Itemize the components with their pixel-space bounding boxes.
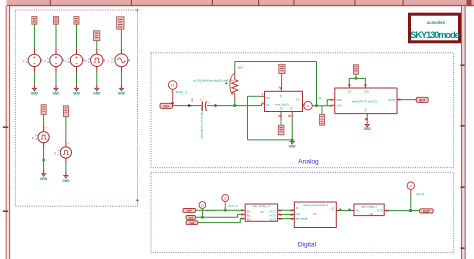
V6 wire top (43, 114, 45, 125)
V2 pin mark right (62, 60, 63, 61)
svg-text:+: + (45, 126, 47, 130)
V2 wire top (55, 24, 57, 48)
V1 pin mark right (41, 60, 42, 61)
probe v1 arrowhead (171, 102, 175, 105)
V7 pin stub top (65, 141, 67, 147)
svg-text:GND: GND (118, 92, 126, 96)
svg-text:Digital: Digital (298, 241, 317, 248)
svg-text:v5: v5 (224, 196, 227, 200)
frame top tick x=403 (403, 0, 404, 6)
selection dashed box (left group) (15, 10, 137, 206)
adc pin cross marks (241, 209, 243, 219)
V3 source circle (70, 54, 82, 66)
svg-text:OUT1: OUT1 (377, 210, 384, 213)
V2 wire bottom (55, 72, 57, 84)
net label box below wire (320, 114, 325, 125)
V3 wire bottom (76, 72, 78, 84)
adc-verilog wire 1 stubs (278, 209, 295, 211)
svg-text:GND: GND (40, 177, 48, 181)
dac out cross mark (387, 210, 389, 212)
V7 wire bottom (65, 164, 67, 172)
adc-verilog cross marks (280, 210, 293, 220)
OUT label box analog (416, 97, 428, 102)
svg-text:xC3Q,3u,w=1u,sky13Q: xC3Q,3u,w=1u,sky13Q (200, 108, 204, 140)
V6 wire junction dot (42, 159, 44, 161)
digital dashed box (151, 172, 454, 252)
svg-text:VDP: VDP (337, 98, 343, 102)
U2 bottom wire (366, 120, 368, 125)
svg-text:IN2: IN2 (247, 214, 252, 217)
in+ red stub (262, 95, 265, 97)
V1 source circle (28, 54, 40, 66)
svg-text:OUT: OUT (419, 99, 426, 103)
V5 label box (117, 17, 124, 29)
opamp U1 top supply wire (281, 74, 283, 89)
V5 wire bottom (120, 72, 122, 84)
U2 vdp stub (332, 99, 335, 101)
OUT label box digital (420, 209, 434, 214)
V1 wire top (33, 24, 35, 48)
svg-text:-: - (123, 70, 124, 74)
V4 pin stub top (96, 49, 98, 55)
probe d1 junction (201, 216, 203, 218)
svg-text:net_L+1: net_L+1 (206, 208, 217, 212)
svg-text:v2: v2 (318, 96, 322, 100)
verilog-dac wire stubs (336, 210, 354, 212)
opamp U1 gnd junction (291, 139, 294, 142)
title block (410, 14, 460, 42)
V4 pin mark right (103, 60, 104, 61)
svg-text:+: + (123, 48, 125, 52)
probe d2 (222, 195, 229, 202)
V3 polarity glyphs (76, 56, 78, 63)
wire B (196, 214, 243, 217)
verilog U1 box (294, 202, 336, 228)
adc-verilog wire 2 stubs (278, 213, 295, 215)
svg-text:V: V (44, 59, 46, 63)
V4 source circle (91, 54, 103, 66)
main wire cap to opamp (207, 105, 262, 107)
junction feedback/wire (315, 104, 318, 107)
svg-text:-: - (36, 70, 37, 74)
svg-text:OU: OU (296, 98, 300, 102)
V3 label box (74, 17, 79, 25)
svg-text:-: - (78, 70, 79, 74)
V1 polarity glyphs (33, 56, 35, 63)
frame top tick x=131 (131, 0, 132, 6)
adc-verilog wire 1 (278, 209, 295, 211)
wire U2 to OUT (400, 99, 416, 101)
V2 pin stub top (55, 49, 57, 55)
U2 vss stub (332, 104, 335, 106)
svg-text:OUT1: OUT1 (270, 210, 277, 213)
svg-text:VSS: VSS (337, 104, 343, 108)
probe vo (304, 101, 313, 110)
probe d3 riser (410, 189, 412, 196)
top feedback rail (235, 61, 317, 63)
svg-text:vin+: vin+ (163, 104, 170, 108)
frame top tick x=258 (258, 0, 259, 6)
svg-text:VOUT: VOUT (388, 98, 396, 102)
V5 pin mark right (128, 60, 129, 61)
V4 ground (93, 88, 101, 95)
svg-text:IN3: IN3 (247, 218, 252, 221)
V7 label box (63, 106, 68, 117)
selection anchor mark (136, 9, 139, 202)
svg-text:+: + (98, 48, 100, 52)
U2 ground (364, 125, 372, 131)
adc-verilog wire 2 (278, 213, 295, 215)
V5 pin stub top (120, 48, 122, 54)
frame top tick x=355 (354, 0, 355, 6)
svg-text:#na_9pLFU: #na_9pLFU (275, 102, 289, 106)
svg-text:V: V (85, 59, 87, 63)
U2 out stub (397, 99, 400, 101)
svg-text:adc_bridge_3: adc_bridge_3 (253, 204, 270, 208)
svg-text:Analog: Analog (298, 158, 319, 165)
frame left border (6, 6, 11, 259)
svg-text:+: + (36, 48, 38, 52)
svg-text:out(,)1: out(,)1 (416, 192, 425, 196)
V6 pin stub top (43, 126, 45, 132)
svg-text:V: V (65, 59, 67, 63)
svg-text:v1: v1 (171, 84, 175, 88)
svg-text:P: P (54, 151, 56, 155)
V1 label box (32, 17, 37, 25)
U2 top pin stubs (349, 84, 365, 88)
adc_bridge U5 box (245, 204, 277, 221)
opamp U1 ground (289, 142, 297, 149)
input label box vin (160, 103, 173, 108)
opamp U1 out stub (303, 104, 306, 106)
V6 ground (40, 174, 48, 181)
in- red stub (262, 103, 265, 105)
svg-text:IN: IN (296, 206, 299, 210)
svg-text:VG: VG (363, 108, 367, 112)
V6 pin stub bottom (43, 143, 45, 149)
net label stub (321, 106, 323, 115)
input label box va1 (186, 216, 196, 220)
svg-text:SKY130mode: SKY130mode (410, 29, 460, 40)
amp U2 box (335, 88, 397, 114)
svg-text:#raNLP8,T/T,b=/O1Q: #raNLP8,T/T,b=/O1Q (352, 100, 377, 104)
capacitor C3 (200, 98, 211, 111)
probe v1 stub (172, 89, 174, 103)
V7 wire top (65, 117, 67, 141)
frame top tick x=212 (212, 0, 213, 6)
svg-text:VD2: VD2 (364, 90, 370, 94)
V6 pulse glyph (41, 135, 47, 139)
svg-text:-: - (45, 146, 46, 150)
svg-text:WL1: WL1 (238, 66, 245, 70)
dac_bridge U8 box (354, 204, 384, 216)
V7 pin stub bottom (65, 158, 67, 164)
V7 source circle (60, 147, 71, 158)
verilog-dac cross marks (340, 208, 342, 210)
svg-text:OU: OU (331, 206, 335, 210)
svg-text:IN+: IN+ (266, 96, 271, 100)
wire A pin stub (242, 209, 245, 211)
opamp U1 feedback loop wire (248, 96, 293, 140)
probe d1 stub (201, 208, 203, 217)
svg-text:u/n_reset: u/n_reset (295, 217, 308, 221)
V1 wire bottom (33, 72, 35, 84)
sheet frame top band (7, 0, 474, 7)
V4 wire bottom (96, 72, 98, 84)
svg-text:va0: va0 (187, 209, 192, 213)
svg-text:GND: GND (364, 127, 372, 131)
junction resistor/main wire (234, 104, 237, 107)
jog into in- pin (261, 104, 263, 106)
svg-text:va2: va2 (189, 221, 194, 225)
svg-text:v7: v7 (409, 184, 413, 188)
svg-text:va1: va1 (188, 216, 193, 220)
svg-text:VD: VD (348, 90, 352, 94)
wire C pin stub (242, 218, 245, 220)
resistor R1 top stub (234, 71, 236, 79)
V2 label box (53, 17, 58, 25)
V2 ground (52, 88, 60, 95)
svg-text:IN-: IN- (266, 103, 270, 107)
V5 wire top (120, 29, 122, 48)
svg-text:GND: GND (73, 92, 81, 96)
rail drop to resistor top (234, 62, 236, 72)
frame top tick x=50 (50, 0, 51, 6)
svg-text:OUT3: OUT3 (270, 218, 277, 221)
V4 pin stub bottom (96, 66, 98, 72)
svg-text:xr13Q,MuM,du,skylJQ,w=Q.5u: xr13Q,MuM,du,skylJQ,w=Q.5u (193, 78, 234, 82)
svg-text:OUT2: OUT2 (270, 214, 277, 217)
input label box va0 (183, 209, 196, 213)
U2 top tie wires (349, 74, 365, 84)
svg-text:V: V (23, 59, 25, 63)
V2 polarity glyphs (55, 56, 57, 63)
V1 pin stub top (33, 49, 35, 55)
main wire input to cap (173, 105, 202, 107)
svg-text:OUT: OUT (423, 209, 430, 213)
svg-text:acmode1: acmode1 (427, 20, 446, 25)
svg-text:+: + (58, 48, 60, 52)
frame left tick y=127 (3, 126, 8, 128)
opamp U1 bottom label box (278, 125, 284, 135)
svg-text:GND: GND (52, 92, 60, 96)
svg-text:GND: GND (93, 92, 101, 96)
svg-text:VB: VB (279, 107, 283, 111)
V4 pulse glyph (94, 58, 100, 62)
V1 pin stub bottom (33, 66, 35, 72)
svg-text:VP: VP (279, 94, 283, 98)
adc-verilog wire 3 stubs (278, 218, 295, 220)
svg-text:dac_bridge_1: dac_bridge_1 (361, 205, 378, 209)
svg-text:-: - (58, 70, 59, 74)
V3 ground (73, 88, 81, 95)
svg-text:-: - (98, 70, 99, 74)
svg-text:cLR: cLR (295, 212, 300, 216)
V6 wire bottom (43, 149, 45, 170)
probe d1 (199, 202, 206, 209)
dac out stub (384, 210, 387, 212)
svg-text:LA: LA (201, 203, 205, 207)
V5 sine glyph (118, 58, 126, 63)
analog dashed box (151, 53, 454, 168)
probe d2 junction (224, 209, 226, 211)
probe v1 (168, 81, 177, 90)
opamp U1 top pin stub (281, 89, 283, 92)
svg-text:pLd_v1: pLd_v1 (228, 203, 238, 207)
jog to U2 vdp pin (327, 100, 332, 106)
opamp U1 top pin tick (279, 87, 282, 89)
frame top tick x=293 (293, 0, 294, 6)
probe d2 stub (224, 201, 226, 210)
V5 pin stub bottom (120, 67, 122, 73)
svg-text:GND: GND (31, 92, 39, 96)
svg-text:IN1: IN1 (247, 210, 252, 213)
dac out wire (387, 210, 419, 212)
V7 pulse glyph (63, 151, 69, 155)
V2 pin stub bottom (55, 66, 57, 72)
V3 pin mark right (83, 60, 84, 61)
V6 label box (41, 105, 46, 115)
current arrow on wire (188, 104, 192, 107)
frame right tick y=65 (460, 64, 464, 66)
resistor R1 body pin mark (225, 82, 227, 84)
V4 wire top (96, 41, 98, 49)
frame right border (461, 6, 466, 259)
svg-text:GND: GND (289, 144, 297, 148)
V3 pin stub bottom (76, 66, 78, 72)
opamp U1 bottom pin A stub (280, 112, 282, 120)
U2 pin cross marks (330, 84, 400, 106)
frame right tick y=248 (460, 247, 464, 249)
svg-text:-: - (68, 161, 69, 165)
input label box va2 (186, 221, 198, 225)
svg-text:PvPl_-1: PvPl_-1 (176, 91, 187, 95)
V1 ground (31, 88, 39, 95)
frame left tick y=211 (3, 210, 8, 212)
resistor R1 (230, 74, 238, 95)
opamp U1 top supply label box (279, 64, 285, 73)
svg-text:GND: GND (62, 179, 70, 183)
wire A (196, 209, 243, 211)
V2 source circle (50, 54, 62, 66)
U2 bottom stub (366, 114, 368, 120)
svg-text:+: + (68, 141, 70, 145)
V3 wire top (76, 24, 78, 48)
out junction (409, 209, 412, 212)
probe d3 (407, 182, 414, 189)
resistor bottom lead (234, 94, 236, 100)
svg-text:VN: VN (290, 107, 294, 111)
U2 top supply label box (353, 65, 358, 75)
svg-text:+: + (78, 48, 80, 52)
wire C (198, 219, 242, 223)
wire probe to U2 (312, 105, 331, 107)
feedback vertical right (316, 62, 318, 106)
V7 ground (62, 176, 70, 183)
V4 label box (94, 31, 100, 41)
opamp U1 box (262, 91, 303, 111)
V5 ground (118, 88, 126, 95)
opamp U1 bottom pin B stub (291, 112, 293, 118)
wire B pin stub (242, 213, 245, 215)
V6 source circle (38, 132, 49, 143)
V5 source circle (115, 54, 128, 67)
svg-text:verilog,elf,example,1: verilog,elf,example,1 (302, 203, 328, 207)
adc-verilog wire 3 (278, 218, 295, 220)
svg-text:P: P (32, 136, 34, 140)
frame right tick y=126 (460, 125, 464, 127)
V3 pin stub top (76, 49, 78, 55)
svg-text:IN1: IN1 (355, 210, 360, 213)
verilog-dac wire (336, 210, 354, 212)
frame right tick y=187 (460, 186, 464, 188)
